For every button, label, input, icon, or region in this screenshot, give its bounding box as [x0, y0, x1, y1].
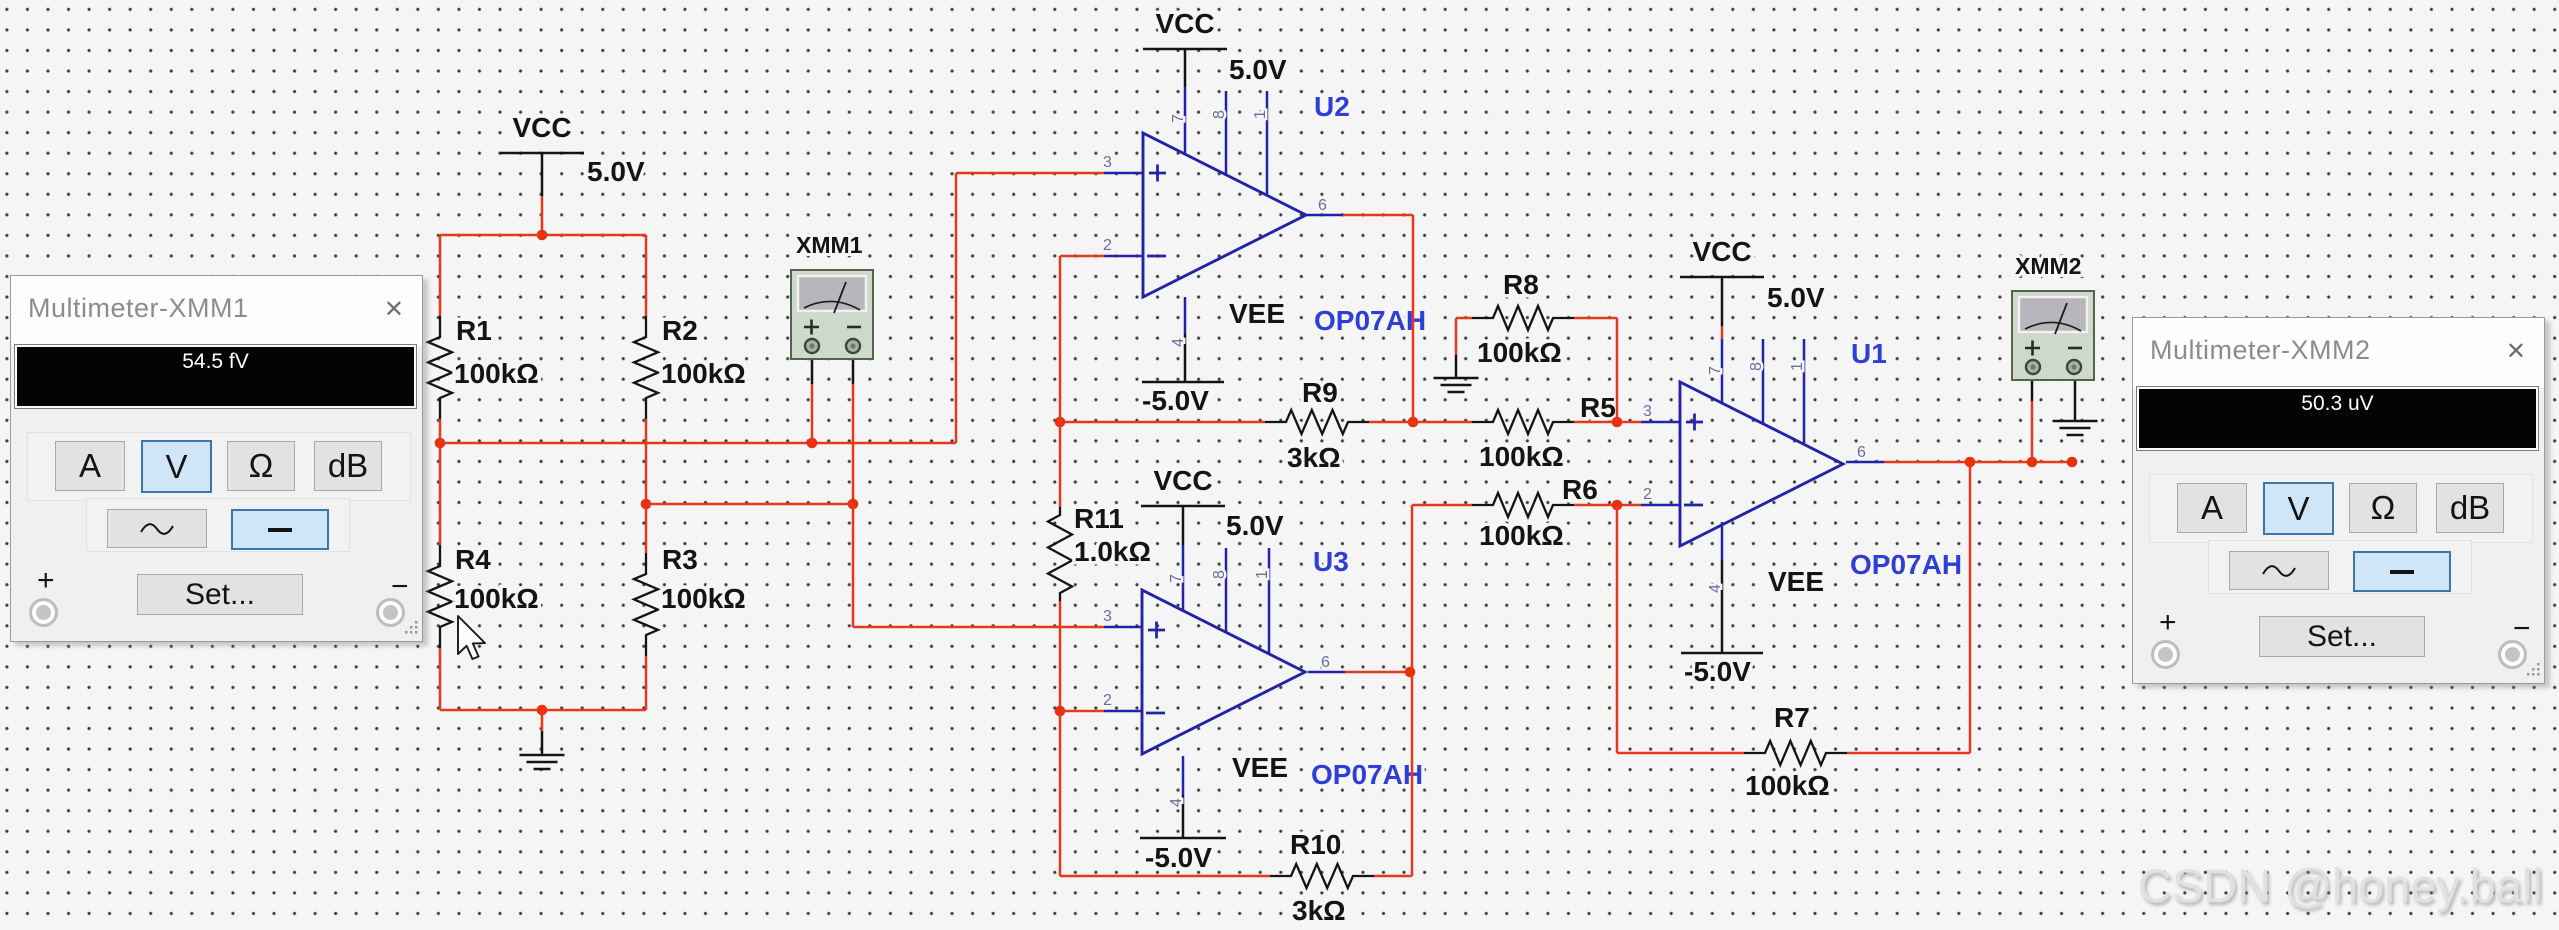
- resistor R9: [1265, 410, 1369, 434]
- resistor R11: [1048, 507, 1072, 601]
- svg-text:100kΩ: 100kΩ: [454, 583, 539, 614]
- multimeter instrument icon XMM1: [791, 270, 873, 359]
- svg-text:2: 2: [1103, 237, 1112, 254]
- junction node A (R1/R4/rail): [435, 438, 446, 449]
- junction node B (R2/R3/rail2): [641, 499, 652, 510]
- wire U3 output lead: [1345, 671, 1410, 674]
- XMM2 icon + terminal mark: [2025, 341, 2040, 356]
- wire R8 left lead to ground: [1456, 318, 1472, 355]
- wire R7 to output node: [1847, 462, 1970, 753]
- svg-text:8: 8: [1211, 110, 1228, 119]
- svg-text:VCC: VCC: [1692, 236, 1751, 267]
- svg-text:VCC: VCC: [1153, 465, 1212, 496]
- XMM1 icon − terminal mark: [847, 326, 861, 329]
- svg-text:VEE: VEE: [1768, 566, 1824, 597]
- svg-text:OP07AH: OP07AH: [1314, 305, 1426, 336]
- pin 8 stub U3: [1225, 548, 1228, 633]
- svg-text:100kΩ: 100kΩ: [1479, 441, 1564, 472]
- wire U1 output rail: [1884, 461, 2072, 464]
- op-amp U1 noninverting + mark: [1686, 414, 1703, 431]
- svg-text:-5.0V: -5.0V: [1142, 385, 1209, 416]
- multimeter instrument icon XMM2: [2012, 291, 2094, 380]
- resistor R5: [1472, 410, 1574, 434]
- wire R3 to bottom rail: [645, 656, 648, 710]
- svg-text:VEE: VEE: [1229, 298, 1285, 329]
- junction output end node: [2067, 457, 2078, 468]
- svg-text:1: 1: [1789, 362, 1806, 371]
- ground (R8): [1434, 378, 1479, 392]
- pin 3 stub U2: [1104, 172, 1143, 175]
- op-amp U3 triangle body: [1142, 590, 1305, 754]
- wire bridge bottom rail: [440, 709, 646, 712]
- op-amp U2 inverting − mark: [1147, 255, 1166, 258]
- XMM2 terminal post: [2026, 360, 2040, 374]
- svg-text:R4: R4: [455, 544, 491, 575]
- wire R2 to node B: [645, 419, 648, 553]
- svg-text:OP07AH: OP07AH: [1850, 549, 1962, 580]
- resistor R6: [1472, 493, 1574, 517]
- multimeter dialog Multimeter-XMM2: [2132, 317, 2545, 684]
- wire R11-top node to R9: [1060, 421, 1265, 424]
- pin 1 stub U1: [1803, 339, 1806, 444]
- wire R6 to U1 pin2 node: [1574, 504, 1641, 507]
- pin 3 stub U1: [1641, 421, 1680, 424]
- pin 2 stub U3: [1104, 710, 1142, 713]
- svg-text:U2: U2: [1314, 91, 1350, 122]
- junction U3 pin2 node: [1055, 706, 1066, 717]
- junction XMM2 plus tap: [2027, 457, 2038, 468]
- pin 8 stub U1: [1762, 339, 1765, 424]
- svg-text:R11: R11: [1074, 503, 1124, 534]
- wire R8 right lead down to U1 pin3 node: [1574, 318, 1617, 422]
- pin 4 stub U2: [1184, 297, 1187, 334]
- svg-text:R6: R6: [1562, 474, 1598, 505]
- resistor R8: [1472, 306, 1574, 330]
- svg-text:3: 3: [1103, 608, 1112, 625]
- XMM1 terminal post: [846, 339, 860, 353]
- pin 4 stub U3: [1182, 756, 1185, 795]
- resistor R2: [634, 316, 658, 419]
- svg-text:3: 3: [1103, 154, 1112, 171]
- wire U3 pin2 node down to R10: [1060, 711, 1270, 876]
- svg-text:VEE: VEE: [1232, 752, 1288, 783]
- svg-text:6: 6: [1321, 654, 1330, 671]
- pin 2 stub U2: [1104, 255, 1143, 258]
- power VEE symbol (U1 -5.0V bar): [1681, 652, 1763, 655]
- wire R10 to U3 output node: [1374, 672, 1412, 876]
- svg-text:R9: R9: [1302, 377, 1338, 408]
- wire U1 pin2 node down to R7: [1617, 505, 1744, 753]
- ground (XMM2): [2053, 421, 2098, 435]
- svg-text:3kΩ: 3kΩ: [1287, 442, 1341, 473]
- wire U3 output up to R6 rail: [1411, 505, 1414, 672]
- svg-text:6: 6: [1318, 197, 1327, 214]
- wire bridge top rail: [440, 234, 646, 237]
- junction U1 pin3 node: [1612, 417, 1623, 428]
- junction bridge top node: [537, 230, 548, 241]
- svg-text:7: 7: [1168, 574, 1185, 583]
- junction U3 output node: [1405, 667, 1416, 678]
- watermark: [2138, 858, 2543, 913]
- svg-text:100kΩ: 100kΩ: [1477, 337, 1562, 368]
- pin 6 stub U1: [1846, 461, 1884, 464]
- svg-text:8: 8: [1748, 362, 1765, 371]
- svg-text:5.0V: 5.0V: [1767, 282, 1825, 313]
- svg-text:VCC: VCC: [1155, 8, 1214, 39]
- op-amp U3 inverting − mark: [1146, 712, 1165, 715]
- wire R5 to U1 pin3 node: [1574, 421, 1641, 424]
- wire VCC to U1 pin7: [1721, 326, 1724, 339]
- svg-text:1.0kΩ: 1.0kΩ: [1074, 536, 1151, 567]
- svg-text:VCC: VCC: [512, 112, 571, 143]
- junction R9 left node on R11 column: [1055, 417, 1066, 428]
- power VCC symbol (U3): [1141, 505, 1225, 508]
- svg-text:7: 7: [1707, 366, 1724, 375]
- svg-text:R7: R7: [1774, 702, 1810, 733]
- wire XMM2 − lead to ground: [2074, 372, 2077, 421]
- svg-text:3kΩ: 3kΩ: [1292, 895, 1346, 926]
- ground (bridge): [520, 755, 565, 769]
- svg-text:1: 1: [1254, 570, 1271, 579]
- svg-text:U3: U3: [1313, 546, 1349, 577]
- wire U2 output down to R9 rail: [1343, 215, 1413, 422]
- wire top rail to R2: [645, 235, 648, 316]
- op-amp U1 inverting − mark: [1684, 504, 1703, 507]
- pin 1 stub U2: [1266, 91, 1269, 196]
- junction bridge bottom node: [537, 705, 548, 716]
- junction U2 output node: [1408, 417, 1419, 428]
- power VEE symbol (U2 -5.0V bar): [1142, 381, 1224, 384]
- resistor R10: [1270, 864, 1374, 888]
- resistor R3: [634, 553, 658, 656]
- op-amp U3 noninverting + mark: [1148, 622, 1165, 639]
- op-amp U2 triangle body: [1143, 133, 1306, 297]
- svg-text:5.0V: 5.0V: [1229, 54, 1287, 85]
- power VCC symbol (bridge supply): [500, 152, 584, 155]
- junction R7 feedback tap: [1965, 457, 1976, 468]
- wire U3 pin2 tap: [1060, 710, 1104, 713]
- svg-text:R1: R1: [456, 315, 492, 346]
- wire R9 to U2 output node: [1369, 421, 1472, 424]
- resistor R1: [428, 316, 452, 419]
- power VCC symbol (U2): [1143, 48, 1227, 51]
- op-amp U2 noninverting + mark: [1149, 165, 1166, 182]
- svg-text:U1: U1: [1851, 338, 1887, 369]
- resistor R4: [428, 545, 452, 648]
- svg-text:1: 1: [1252, 110, 1269, 119]
- svg-text:5.0V: 5.0V: [1226, 510, 1284, 541]
- wire node A rail to U2: [440, 173, 1104, 443]
- svg-text:8: 8: [1211, 570, 1228, 579]
- XMM2 icon − terminal mark: [2068, 347, 2082, 350]
- pin 7 stub U3: [1182, 545, 1185, 612]
- wire VCC to bridge top node: [541, 196, 544, 235]
- pin 8 stub U2: [1225, 91, 1228, 176]
- wire R4 to bottom rail: [439, 648, 442, 710]
- svg-text:XMM2: XMM2: [2015, 253, 2081, 279]
- svg-text:OP07AH: OP07AH: [1311, 759, 1423, 790]
- svg-text:4: 4: [1168, 798, 1185, 807]
- wire XMM2 + lead: [2031, 401, 2034, 462]
- op-amp U1 triangle body: [1680, 382, 1843, 546]
- mouse cursor: [458, 616, 485, 659]
- svg-text:6: 6: [1857, 444, 1866, 461]
- wire U3 output to R6: [1412, 504, 1472, 507]
- pin 2 stub U1: [1641, 504, 1680, 507]
- XMM1 icon + terminal mark: [804, 320, 819, 335]
- XMM2 terminal post: [2067, 360, 2081, 374]
- power VEE symbol (U3 -5.0V bar): [1140, 837, 1226, 840]
- pin 7 stub U1: [1721, 339, 1724, 404]
- svg-text:-5.0V: -5.0V: [1684, 656, 1751, 687]
- junction U1 pin2 node: [1612, 500, 1623, 511]
- svg-text:100kΩ: 100kΩ: [661, 583, 746, 614]
- pin 3 stub U3: [1104, 626, 1142, 629]
- pin 6 stub U3: [1308, 671, 1345, 674]
- pin 6 stub U2: [1306, 214, 1343, 217]
- wire/pin 7 stub U2: [1184, 87, 1187, 155]
- svg-text:-5.0V: -5.0V: [1145, 842, 1212, 873]
- svg-text:7: 7: [1170, 114, 1187, 123]
- svg-text:4: 4: [1707, 584, 1724, 593]
- svg-text:R8: R8: [1503, 269, 1539, 300]
- pin 4 stub U1: [1721, 522, 1724, 560]
- svg-text:R2: R2: [662, 315, 698, 346]
- pin 1 stub U3: [1268, 548, 1271, 653]
- resistor R7: [1744, 741, 1847, 765]
- svg-text:100kΩ: 100kΩ: [661, 358, 746, 389]
- multimeter dialog Multimeter-XMM1: [10, 275, 423, 642]
- wire XMM1 − lead down to node B: [852, 352, 855, 384]
- wire R1 to node A: [439, 419, 442, 545]
- junction node B / XMM1 minus: [848, 499, 859, 510]
- svg-text:R3: R3: [662, 544, 698, 575]
- wire U2 pin2 feedback node: [1060, 256, 1104, 507]
- svg-text:R10: R10: [1290, 829, 1341, 860]
- svg-text:100kΩ: 100kΩ: [454, 358, 539, 389]
- wire R11 to U3 pin2 node: [1059, 601, 1062, 711]
- svg-text:4: 4: [1170, 338, 1187, 347]
- wire node B to U3 pin3: [853, 504, 1104, 627]
- svg-text:2: 2: [1643, 486, 1652, 503]
- power VCC symbol (U1): [1680, 276, 1764, 279]
- wire bottom node to ground: [541, 710, 544, 731]
- wire top rail to R1: [439, 235, 442, 316]
- XMM1 terminal post: [805, 339, 819, 353]
- svg-text:100kΩ: 100kΩ: [1479, 520, 1564, 551]
- svg-text:XMM1: XMM1: [796, 232, 863, 258]
- svg-text:2: 2: [1103, 692, 1112, 709]
- wire rail2 node B: [646, 503, 853, 506]
- wire XMM1 + lead: [811, 352, 814, 384]
- svg-text:3: 3: [1643, 403, 1652, 420]
- svg-text:100kΩ: 100kΩ: [1745, 770, 1830, 801]
- svg-text:5.0V: 5.0V: [587, 156, 645, 187]
- junction XMM1 plus tap: [807, 438, 818, 449]
- svg-text:R5: R5: [1580, 392, 1616, 423]
